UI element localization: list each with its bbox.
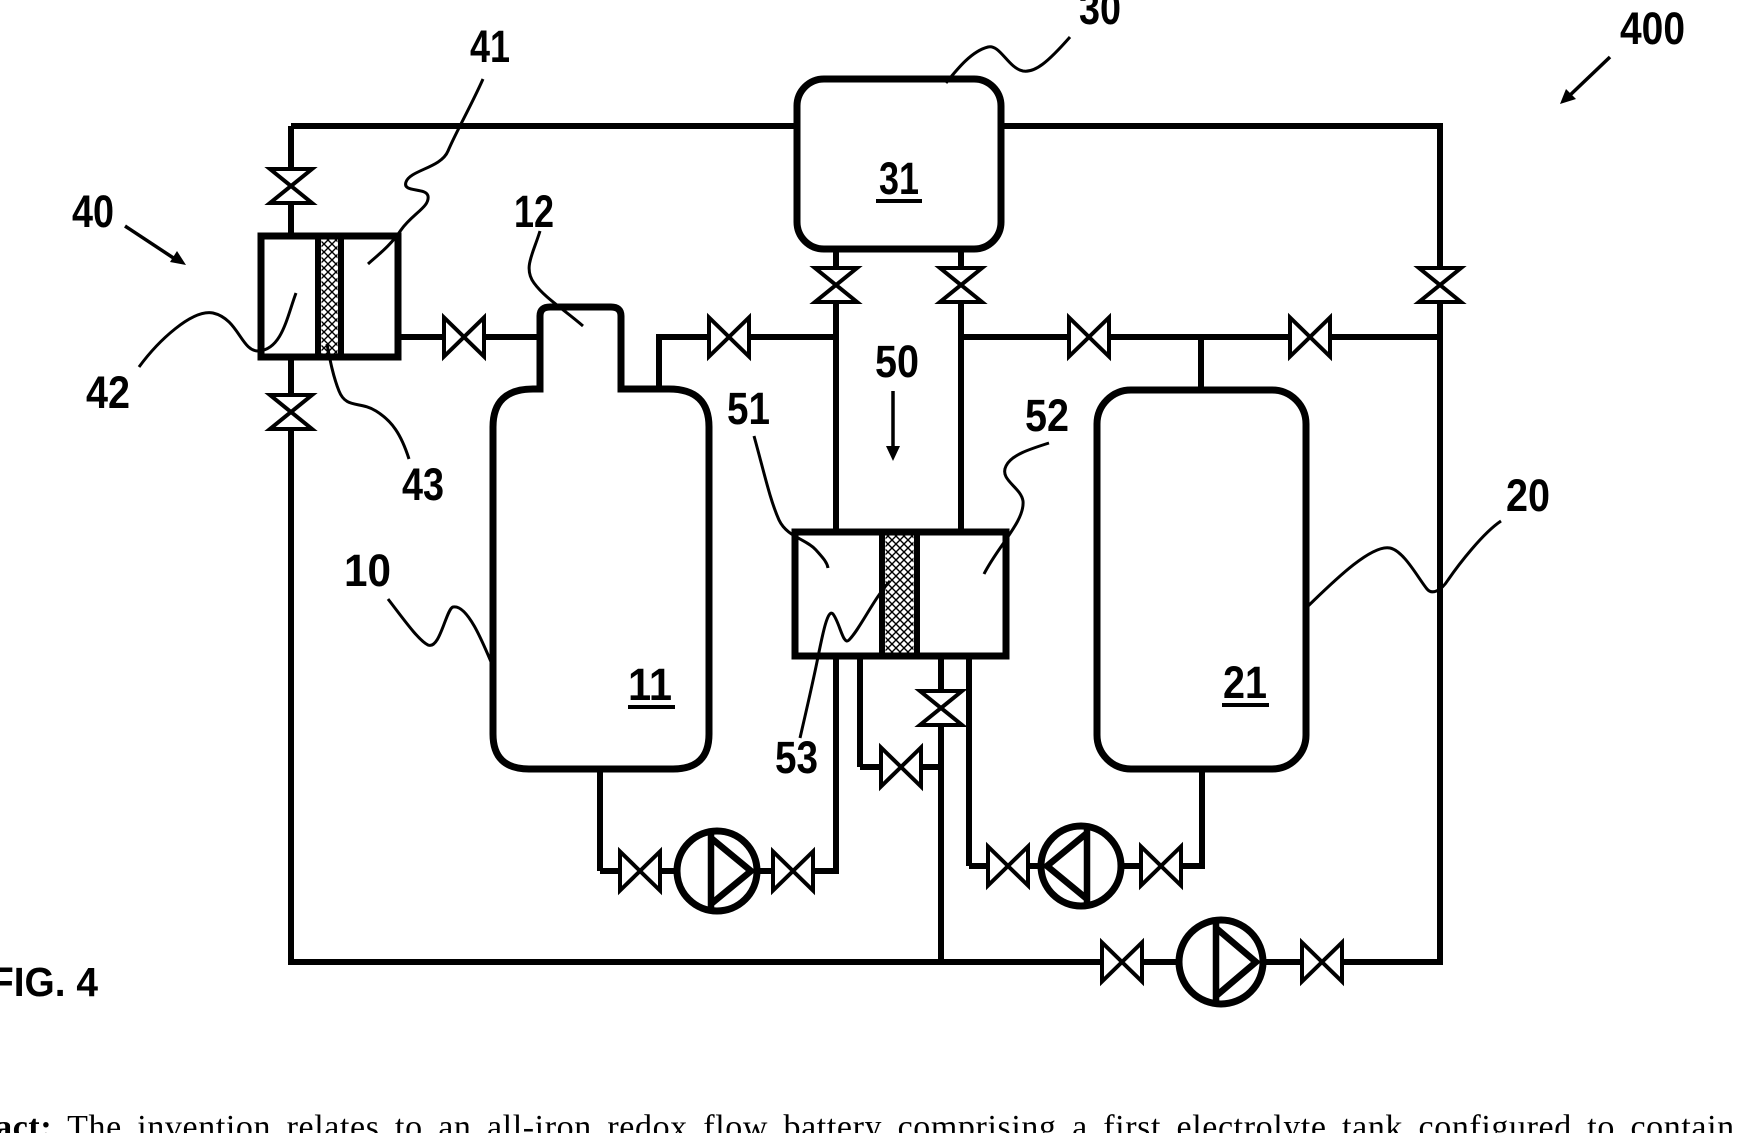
svg-text:53: 53 <box>775 732 818 783</box>
svg-text:Abstract: The invention relate: Abstract: The invention relates to an al… <box>0 1109 1735 1133</box>
svg-text:11: 11 <box>628 659 672 710</box>
svg-text:FIG. 4: FIG. 4 <box>0 959 98 1005</box>
svg-text:20: 20 <box>1506 470 1550 521</box>
svg-text:400: 400 <box>1620 3 1685 54</box>
svg-text:30: 30 <box>1079 0 1121 34</box>
svg-text:43: 43 <box>402 459 444 510</box>
svg-text:52: 52 <box>1025 390 1069 441</box>
svg-text:41: 41 <box>470 21 510 72</box>
svg-text:31: 31 <box>879 153 919 204</box>
svg-text:21: 21 <box>1223 657 1267 708</box>
svg-text:42: 42 <box>86 367 130 418</box>
svg-text:50: 50 <box>875 336 919 387</box>
svg-text:40: 40 <box>72 186 114 237</box>
svg-text:10: 10 <box>344 545 391 596</box>
svg-text:51: 51 <box>727 383 770 434</box>
svg-text:12: 12 <box>514 186 554 237</box>
